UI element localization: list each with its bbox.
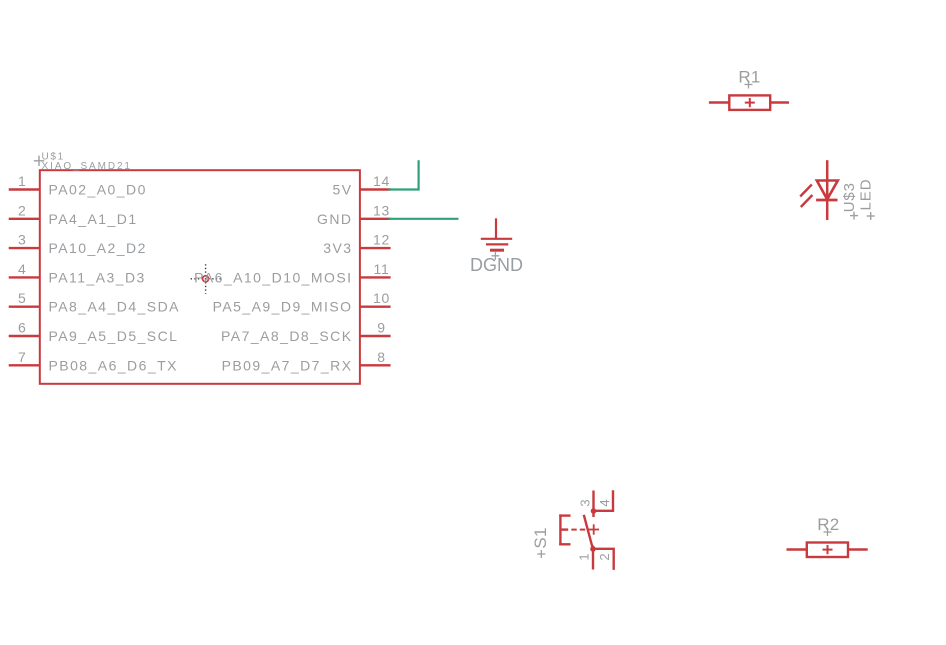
resistor R1 [709,68,789,110]
R2 right lead [848,548,868,550]
svg-text:PA7_A8_D8_SCK: PA7_A8_D8_SCK [221,328,352,344]
S1 actuator E shape [559,514,570,545]
pin 5 [9,306,40,308]
svg-text:5: 5 [18,290,27,306]
svg-text:PA10_A2_D2: PA10_A2_D2 [49,240,147,256]
svg-text:PA9_A5_D5_SCL: PA9_A5_D5_SCL [49,328,179,344]
R2 center cross [823,545,833,554]
svg-text:R2: R2 [817,515,839,534]
svg-text:3: 3 [18,232,27,248]
LED value origin cross [867,212,875,220]
svg-text:PA6_A10_D10_MOSI: PA6_A10_D10_MOSI [194,269,352,285]
pin 9 [360,335,391,337]
LED cathode lead [826,200,829,220]
R2 left lead [787,548,807,550]
svg-text:4: 4 [18,261,27,277]
svg-text:GND: GND [317,211,352,227]
pin 10 [360,306,391,308]
S1 center cross [588,524,599,534]
svg-text:14: 14 [373,173,390,189]
svg-text:U$3: U$3 [841,182,858,212]
svg-text:PB09_A7_D7_RX: PB09_A7_D7_RX [222,357,353,373]
svg-text:10: 10 [373,290,390,306]
S1 dashed link [571,529,585,531]
ground bar 3 [490,249,504,252]
svg-text:3: 3 [577,499,592,506]
ground DGND [470,218,523,275]
pin 2 [9,218,40,220]
pin 4 [9,276,40,278]
svg-text:11: 11 [374,261,390,277]
svg-text:2: 2 [18,202,27,218]
LED light arrow 2 [801,195,813,207]
svg-text:4: 4 [597,499,612,506]
pin 6 [9,335,40,337]
S1 origin cross [537,550,545,558]
R1 right lead [770,101,789,103]
R1 origin cross [745,81,753,89]
ground bar 1 [481,238,512,240]
S1 pin 1 [592,546,594,570]
svg-text:DGND: DGND [470,255,523,275]
S1 lever [584,515,593,550]
svg-text:S1: S1 [531,527,550,548]
pin 3 [9,247,40,249]
svg-text:1: 1 [577,553,592,560]
svg-text:12: 12 [373,232,390,248]
svg-text:PA5_A9_D9_MISO: PA5_A9_D9_MISO [213,299,353,315]
resistor R2 [787,515,868,557]
S1 junction top [591,508,597,514]
pin 11 [360,276,391,278]
R1 body [729,95,770,110]
S1 pin 2 [593,549,614,570]
pin 8 [360,364,391,366]
R2 body [807,543,848,558]
pin 14 [360,188,391,190]
LED cathode bar [816,199,837,202]
IC U$1 body rectangle [40,170,360,384]
pin 12 [360,247,391,249]
svg-text:XIAO_SAMD21: XIAO_SAMD21 [42,161,132,172]
svg-text:1: 1 [18,173,27,189]
svg-text:5V: 5V [332,182,352,198]
svg-text:2: 2 [597,553,612,560]
LED triangle [817,181,838,200]
svg-text:7: 7 [18,349,27,365]
LED anode lead [826,160,829,180]
pin 1 [9,188,40,190]
part origin cross U$1 [34,156,44,166]
LED light arrow 1 [800,185,812,197]
R1 center cross [745,98,755,107]
switch S1 [531,490,614,570]
S1 junction bottom [590,546,596,552]
svg-text:13: 13 [373,202,390,218]
ground stem [495,218,497,239]
LED U$3 [800,160,875,220]
svg-text:R1: R1 [738,68,760,87]
svg-text:9: 9 [377,320,386,336]
svg-text:PB08_A6_D6_TX: PB08_A6_D6_TX [49,357,178,373]
R1 left lead [709,101,729,103]
IC center origin marker [191,264,221,294]
IC U$1 XIAO_SAMD21 [9,152,391,384]
svg-text:LED: LED [857,179,874,211]
svg-text:PA02_A0_D0: PA02_A0_D0 [49,182,147,198]
U$3 origin cross [850,212,858,220]
R2 origin cross [824,528,832,536]
svg-text:PA4_A1_D1: PA4_A1_D1 [49,211,138,227]
svg-text:PA11_A3_D3: PA11_A3_D3 [49,269,146,285]
pin 13 [360,218,391,220]
LED internal line [826,181,829,200]
wire GND net [388,218,458,220]
wire 5V net [388,160,418,189]
svg-text:PA8_A4_D4_SDA: PA8_A4_D4_SDA [49,299,180,315]
svg-text:6: 6 [18,320,27,336]
ground bar 2 [486,243,508,245]
svg-text:3V3: 3V3 [323,240,352,256]
svg-text:8: 8 [377,349,386,365]
ground origin cross [491,252,499,260]
S1 pin 4 [595,490,614,511]
pin 7 [9,364,40,366]
S1 pin 3 [592,491,594,518]
